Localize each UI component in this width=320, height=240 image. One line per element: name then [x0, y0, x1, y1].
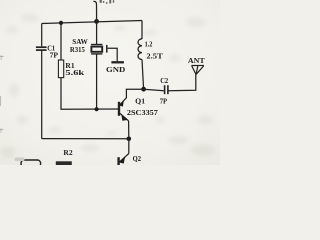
- wire SAW case to ground: [108, 48, 118, 61]
- bottom left faint blob: [15, 158, 25, 162]
- wire SAW top lead: [96, 21, 98, 44]
- resistor R1: [58, 60, 63, 78]
- component partial pill outline (cut at bottom): [21, 160, 41, 167]
- wire SAW bottom lead down to base node: [96, 55, 98, 110]
- wire left branch upper (C1 top lead): [41, 24, 43, 47]
- wire inductor top lead (rail corner down): [141, 21, 143, 40]
- SAW resonator plates and crystal: [91, 45, 102, 54]
- wire Q1 emitter down: [128, 121, 130, 139]
- transistor Q2 lead with arrow: [120, 154, 129, 163]
- capacitor C2: [165, 85, 168, 94]
- svg-text:R315: R315: [70, 46, 85, 54]
- inductor L (2.5T coil): [138, 39, 142, 60]
- wire left branch lower (C1 bottom lead down): [41, 51, 43, 139]
- node junction R1 top: [59, 21, 63, 25]
- node junction supply / SAW: [94, 19, 99, 24]
- wire bottom horizontal: [42, 138, 129, 140]
- antenna symbol: [191, 66, 204, 75]
- svg-text:ANT: ANT: [188, 56, 206, 65]
- wire down to Q2: [128, 139, 130, 154]
- svg-text:7P: 7P: [50, 50, 59, 59]
- svg-text:7P: 7P: [160, 98, 168, 106]
- wire C2 to antenna: [169, 74, 196, 91]
- wire inductor bottom lead to collector node: [142, 60, 144, 90]
- wire top supply rail: [42, 21, 142, 24]
- node junction collector / antenna feed: [141, 87, 146, 92]
- node junction SAW / base wire: [95, 107, 99, 111]
- label supply voltage fragment (cut at top): [100, 0, 115, 4]
- svg-text:GND: GND: [106, 65, 126, 74]
- left edge scan artifacts: [0, 55, 4, 133]
- svg-text:1.2: 1.2: [145, 40, 153, 49]
- transistor Q2 base bar (cut at bottom): [117, 157, 119, 165]
- capacitor C1: [36, 47, 47, 50]
- ground bar: [111, 61, 124, 63]
- wire collector of Q1: [120, 89, 144, 105]
- SAW case electrode bar: [106, 45, 108, 53]
- svg-text:2SC3357: 2SC3357: [127, 108, 158, 117]
- transistor Q1 base bar: [118, 102, 120, 116]
- svg-text:5.6k: 5.6k: [65, 69, 84, 77]
- wire R1 bottom lead and base wire: [61, 78, 119, 110]
- svg-text:2.5T: 2.5T: [146, 51, 162, 60]
- wire R1 top lead: [60, 23, 62, 60]
- svg-text:Q1: Q1: [135, 97, 145, 106]
- svg-text:SAW: SAW: [72, 37, 88, 46]
- transistor Q1 emitter with arrow: [120, 113, 129, 121]
- svg-text:C2: C2: [160, 77, 168, 85]
- svg-text:R2: R2: [63, 148, 72, 157]
- paper mottle (decorative): [6, 14, 213, 152]
- component partial dark bar (cut at bottom): [56, 161, 72, 166]
- node junction emitter / bottom wire: [127, 137, 132, 142]
- wire antenna feed to C2: [144, 89, 164, 91]
- svg-text:Q2: Q2: [133, 155, 142, 163]
- wire power feed up: [93, 1, 96, 21]
